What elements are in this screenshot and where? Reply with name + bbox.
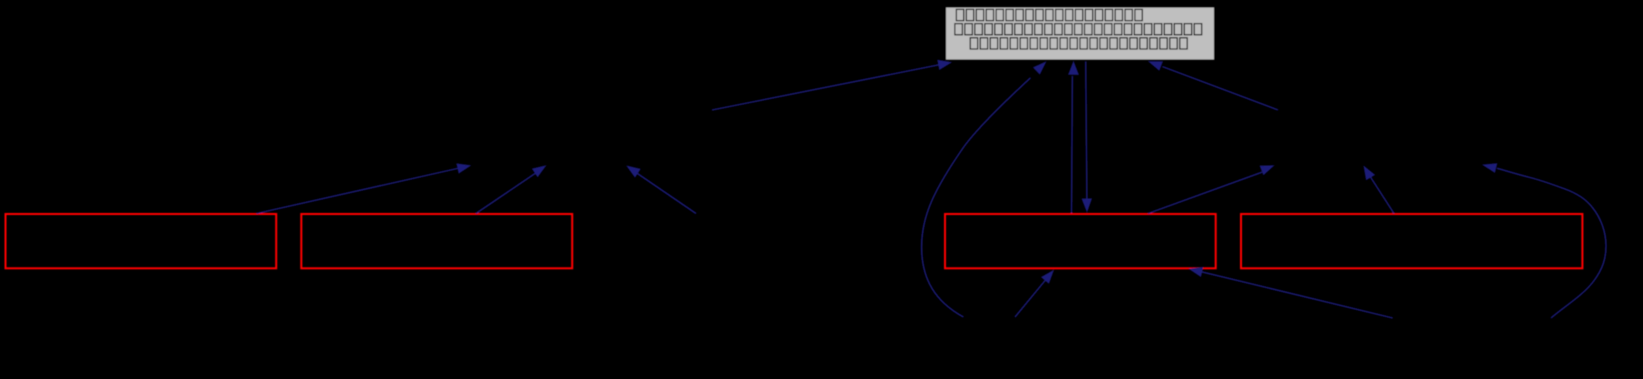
edge: node3 -> node8 (1148, 165, 1275, 213)
node5: red box 2 (301, 214, 572, 268)
edge: node2 -> node1 (712, 60, 952, 110)
node1: current function (gray box with missing-glyph text) (946, 7, 1215, 60)
edge: node8 -> node1 (1148, 61, 1278, 110)
node9: red box 4 (right) (1241, 214, 1582, 268)
edge: node6 -> node2 (626, 166, 696, 214)
edge: node1 -> node3 (down) (1082, 62, 1092, 213)
edge: node7 -> node1 (left curve) (922, 61, 1047, 317)
edge: node7 -> node3 (1015, 270, 1054, 317)
edge: node5 -> node2 (476, 165, 547, 213)
edge: node4 -> node2 (256, 163, 471, 213)
edge: node9 -> node8 (1364, 166, 1395, 214)
edge: node3 -> node1 (up) (1068, 61, 1079, 213)
node4: red box 1 (bottom far left) (6, 214, 277, 268)
edge: node10 -> node3 (1189, 267, 1393, 318)
node3: red box 3 (center) (945, 214, 1216, 268)
edge: node10 -> node8 (right curve) (1482, 163, 1606, 318)
